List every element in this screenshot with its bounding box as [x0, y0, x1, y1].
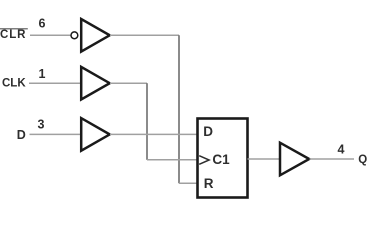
wire D to buffer [30, 133, 82, 135]
wire Q output [310, 158, 355, 160]
wire CLR to bubble [30, 34, 71, 36]
svg-text:6: 6 [39, 17, 46, 31]
wire CLK to buffer [29, 82, 81, 84]
buffer D triangle [81, 118, 110, 151]
svg-text:D: D [203, 124, 213, 139]
wire CLK buffer output horizontal [110, 82, 147, 84]
wire box output to buffer [248, 158, 281, 160]
buffer CLK triangle [81, 67, 110, 100]
wire CLK vertical down to C1 [146, 83, 148, 160]
wire D buffer output into D input [110, 133, 198, 135]
svg-text:3: 3 [38, 118, 45, 132]
svg-text:CLR: CLR [0, 29, 26, 41]
overline on CLR [0, 28, 28, 30]
wire CLR buffer output horizontal [110, 34, 179, 36]
wire into C1 input [147, 159, 198, 161]
buffer Q triangle [280, 143, 309, 176]
svg-text:CLK: CLK [2, 78, 26, 90]
flip-flop U1 box [198, 119, 248, 198]
wire CLR vertical down to R [178, 35, 180, 183]
svg-text:4: 4 [338, 143, 345, 157]
buffer CLR triangle [81, 19, 110, 52]
svg-text:R: R [204, 176, 214, 191]
wire into R input [179, 182, 198, 184]
svg-text:1: 1 [39, 67, 46, 81]
svg-text:Q: Q [358, 154, 367, 166]
clock wedge on C1 [199, 156, 209, 165]
svg-text:C1: C1 [212, 152, 230, 167]
inverter bubble [71, 32, 78, 39]
svg-text:D: D [17, 128, 26, 142]
